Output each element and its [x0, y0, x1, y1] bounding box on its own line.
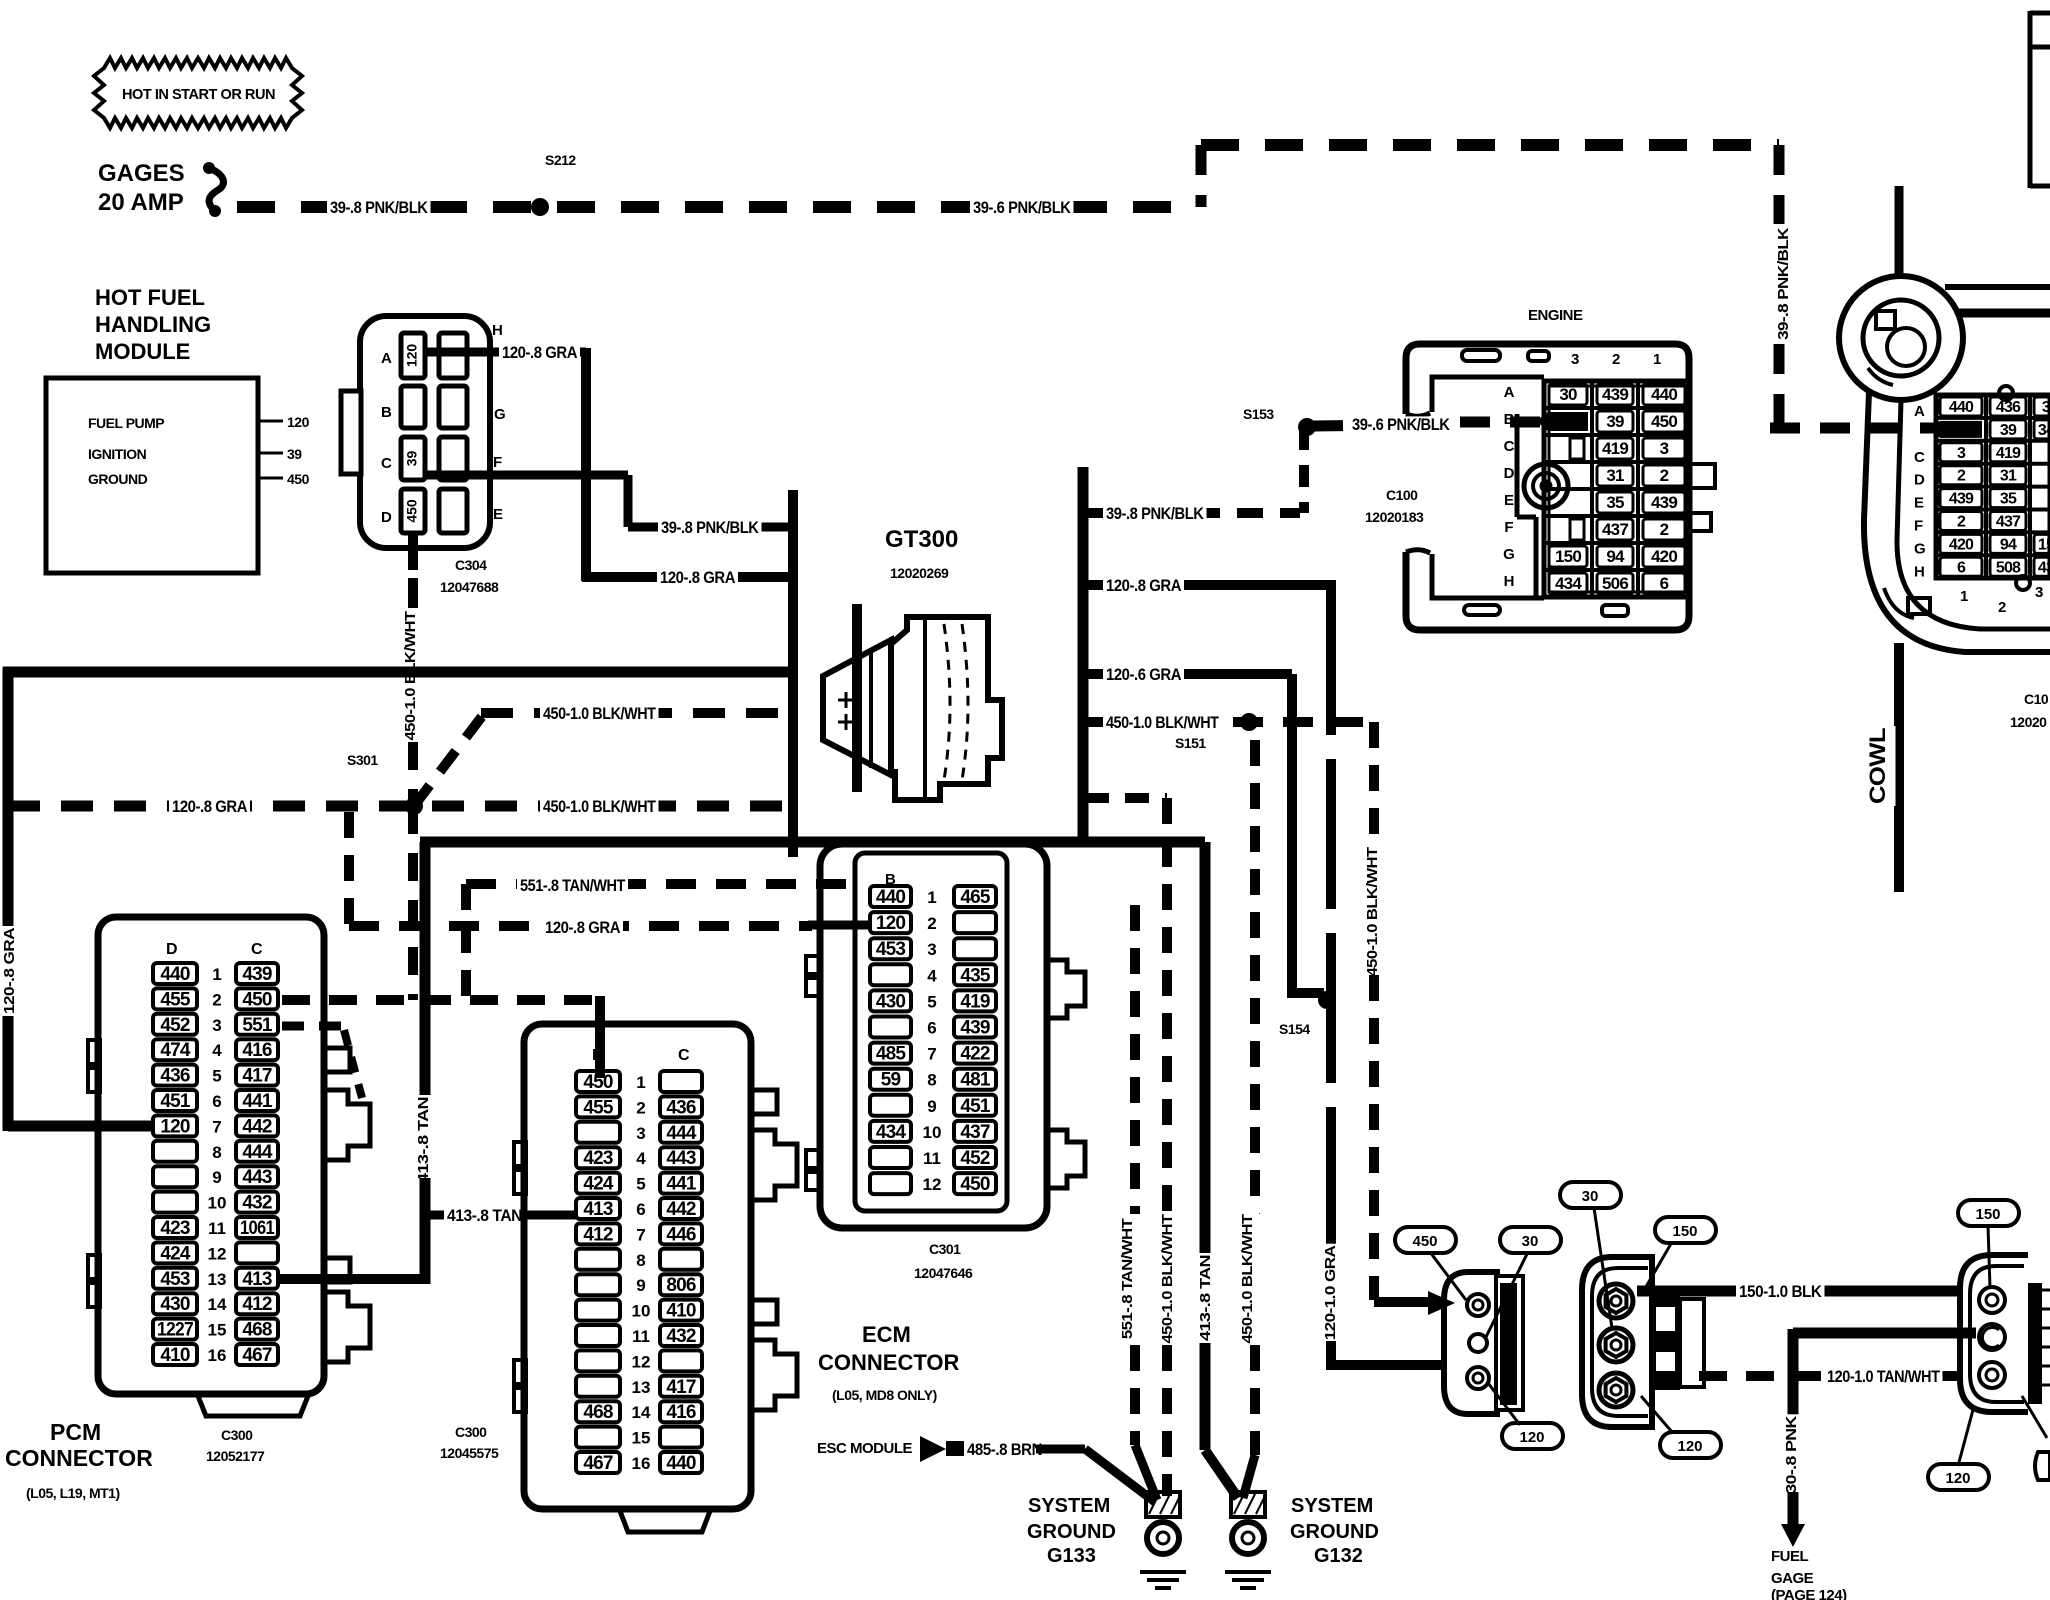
svg-text:G: G [494, 406, 505, 423]
svg-text:450: 450 [242, 989, 272, 1010]
svg-text:3: 3 [212, 1016, 221, 1035]
svg-text:453: 453 [160, 1269, 190, 1290]
svg-text:439: 439 [1949, 491, 1974, 508]
svg-text:4: 4 [927, 966, 937, 985]
svg-text:PCM: PCM [50, 1419, 101, 1445]
svg-text:3: 3 [1957, 445, 1966, 462]
svg-text:453: 453 [876, 939, 906, 960]
svg-text:7: 7 [927, 1045, 936, 1064]
svg-text:C100: C100 [1386, 487, 1418, 503]
svg-text:468: 468 [242, 1320, 272, 1341]
svg-text:94: 94 [1606, 547, 1625, 566]
svg-text:13: 13 [632, 1378, 651, 1397]
svg-text:1: 1 [1960, 588, 1968, 605]
svg-text:437: 437 [960, 1122, 990, 1143]
svg-text:39-.6 PNK/BLK: 39-.6 PNK/BLK [973, 198, 1072, 217]
svg-text:455: 455 [583, 1097, 614, 1118]
svg-text:15: 15 [632, 1429, 651, 1448]
svg-text:419: 419 [960, 991, 990, 1012]
svg-text:(PAGE 124): (PAGE 124) [1771, 1587, 1847, 1600]
svg-text:468: 468 [583, 1402, 613, 1423]
svg-text:G: G [1503, 546, 1515, 563]
svg-text:443: 443 [242, 1167, 272, 1188]
svg-text:12047646: 12047646 [914, 1265, 973, 1281]
svg-text:465: 465 [960, 887, 991, 908]
svg-text:30: 30 [1582, 1188, 1599, 1205]
svg-text:16: 16 [208, 1346, 227, 1365]
svg-text:HANDLING: HANDLING [95, 312, 211, 337]
svg-text:1061: 1061 [240, 1218, 275, 1239]
svg-text:14: 14 [632, 1403, 651, 1422]
svg-text:434: 434 [2038, 559, 2050, 576]
svg-text:D: D [1914, 472, 1925, 489]
svg-text:E: E [1914, 495, 1924, 512]
svg-text:2: 2 [212, 990, 221, 1009]
svg-text:1: 1 [1653, 351, 1661, 368]
svg-text:440: 440 [1651, 385, 1677, 404]
svg-text:413-.8 TAN: 413-.8 TAN [1197, 1255, 1214, 1341]
svg-text:450-1.0 BLK/WHT: 450-1.0 BLK/WHT [543, 797, 656, 816]
svg-text:420: 420 [1949, 536, 1974, 553]
svg-text:506: 506 [1602, 574, 1628, 593]
svg-text:20 AMP: 20 AMP [98, 189, 184, 216]
svg-text:4: 4 [636, 1149, 646, 1168]
svg-text:440: 440 [160, 964, 190, 985]
svg-text:450-1.0 BLK/WHT: 450-1.0 BLK/WHT [1106, 713, 1219, 732]
svg-text:450: 450 [287, 471, 310, 487]
svg-text:CONNECTOR: CONNECTOR [5, 1445, 153, 1471]
svg-text:13: 13 [208, 1270, 227, 1289]
svg-text:120: 120 [1519, 1429, 1544, 1446]
svg-text:440: 440 [876, 887, 906, 908]
svg-text:417: 417 [666, 1377, 696, 1398]
svg-text:6: 6 [1957, 559, 1966, 576]
svg-text:442: 442 [666, 1199, 696, 1220]
svg-text:D: D [166, 941, 177, 958]
svg-text:GROUND: GROUND [1027, 1521, 1116, 1543]
svg-text:485-.8 BRN: 485-.8 BRN [967, 1440, 1042, 1459]
svg-text:F: F [493, 454, 502, 471]
svg-text:551: 551 [242, 1015, 273, 1036]
svg-text:GAGES: GAGES [98, 160, 185, 187]
svg-text:35: 35 [2000, 491, 2017, 508]
svg-text:C: C [1914, 449, 1925, 466]
svg-text:12052177: 12052177 [206, 1448, 265, 1464]
svg-text:H: H [1914, 563, 1924, 580]
svg-text:9: 9 [636, 1276, 645, 1295]
svg-text:424: 424 [583, 1174, 614, 1195]
svg-text:FUEL PUMP: FUEL PUMP [88, 415, 164, 431]
svg-text:436: 436 [666, 1097, 696, 1118]
svg-text:413: 413 [583, 1199, 613, 1220]
svg-text:450: 450 [1412, 1233, 1437, 1250]
svg-text:12047688: 12047688 [440, 579, 499, 595]
svg-text:450-1.0 BLK/WHT: 450-1.0 BLK/WHT [1364, 847, 1381, 976]
svg-text:G132: G132 [1314, 1545, 1363, 1567]
svg-text:12020269: 12020269 [890, 565, 949, 581]
svg-text:S154: S154 [1279, 1021, 1310, 1037]
svg-text:150: 150 [1555, 547, 1581, 566]
svg-text:A: A [1914, 403, 1925, 420]
svg-text:434: 434 [1555, 574, 1582, 593]
svg-text:443: 443 [666, 1148, 696, 1169]
svg-text:439: 439 [242, 964, 272, 985]
svg-text:2: 2 [1660, 466, 1669, 485]
svg-text:D: D [381, 509, 392, 526]
svg-text:S301: S301 [347, 752, 378, 768]
svg-text:7: 7 [636, 1225, 645, 1244]
svg-text:S212: S212 [545, 152, 576, 168]
svg-text:416: 416 [666, 1402, 696, 1423]
svg-text:9: 9 [212, 1168, 221, 1187]
svg-text:2: 2 [636, 1098, 645, 1117]
svg-text:11: 11 [923, 1149, 941, 1168]
svg-text:440: 440 [1949, 399, 1974, 416]
svg-text:410: 410 [160, 1345, 190, 1366]
svg-text:120-1.0 TAN/WHT: 120-1.0 TAN/WHT [1827, 1367, 1940, 1386]
svg-text:424: 424 [160, 1243, 191, 1264]
svg-text:59: 59 [881, 1070, 901, 1091]
svg-text:31: 31 [1606, 466, 1624, 485]
svg-text:120-1.0 GRA: 120-1.0 GRA [1322, 1245, 1339, 1340]
svg-text:6: 6 [927, 1019, 936, 1038]
svg-text:12045575: 12045575 [440, 1445, 499, 1461]
svg-text:120: 120 [404, 344, 420, 368]
svg-text:C: C [381, 455, 392, 472]
svg-text:12: 12 [632, 1352, 651, 1371]
svg-text:12: 12 [208, 1244, 227, 1263]
svg-text:420: 420 [1651, 547, 1677, 566]
svg-text:10: 10 [923, 1123, 942, 1142]
svg-text:35: 35 [1606, 493, 1624, 512]
svg-text:423: 423 [583, 1148, 613, 1169]
svg-text:150: 150 [2038, 536, 2050, 553]
svg-text:C: C [678, 1047, 690, 1064]
svg-text:4: 4 [212, 1041, 222, 1060]
svg-text:SYSTEM: SYSTEM [1291, 1495, 1373, 1517]
svg-text:2: 2 [1612, 351, 1620, 368]
svg-text:435: 435 [960, 965, 991, 986]
svg-text:C300: C300 [221, 1427, 253, 1443]
svg-text:S153: S153 [1243, 406, 1274, 422]
svg-text:430: 430 [160, 1294, 190, 1315]
svg-text:120-.6 GRA: 120-.6 GRA [1106, 665, 1181, 684]
svg-text:8: 8 [212, 1143, 221, 1162]
svg-text:419: 419 [1996, 445, 2021, 462]
svg-text:439: 439 [1602, 385, 1628, 404]
svg-text:G133: G133 [1047, 1545, 1096, 1567]
svg-text:413-.8 TAN: 413-.8 TAN [415, 1097, 432, 1183]
svg-text:436: 436 [160, 1066, 190, 1087]
svg-text:GROUND: GROUND [88, 471, 148, 487]
svg-text:451: 451 [160, 1091, 191, 1112]
svg-text:C10: C10 [2024, 691, 2049, 707]
svg-text:474: 474 [160, 1040, 191, 1061]
svg-text:A: A [1504, 384, 1515, 401]
svg-text:452: 452 [960, 1148, 990, 1169]
svg-text:432: 432 [666, 1326, 696, 1347]
svg-text:12: 12 [923, 1175, 942, 1194]
svg-text:(L05, L19, MT1): (L05, L19, MT1) [26, 1485, 120, 1501]
svg-text:120: 120 [160, 1116, 190, 1137]
svg-text:450-1.0 BLK/WHT: 450-1.0 BLK/WHT [1159, 1214, 1176, 1343]
svg-text:450-1.0 BLK/WHT: 450-1.0 BLK/WHT [1239, 1214, 1256, 1343]
svg-text:6: 6 [1660, 574, 1669, 593]
svg-text:10: 10 [632, 1302, 651, 1321]
svg-text:437: 437 [1602, 520, 1628, 539]
svg-text:IGNITION: IGNITION [88, 446, 147, 462]
svg-text:C301: C301 [929, 1241, 961, 1257]
svg-text:430: 430 [876, 991, 906, 1012]
svg-text:39: 39 [287, 446, 302, 462]
svg-text:2: 2 [1998, 599, 2006, 616]
svg-text:39-.8 PNK/BLK: 39-.8 PNK/BLK [661, 518, 760, 537]
svg-text:120: 120 [287, 414, 310, 430]
svg-text:39-.8 PNK/BLK: 39-.8 PNK/BLK [1106, 504, 1205, 523]
svg-text:452: 452 [160, 1015, 190, 1036]
svg-text:2: 2 [1957, 468, 1966, 485]
svg-text:551-.8 TAN/WHT: 551-.8 TAN/WHT [1119, 1218, 1136, 1339]
svg-text:3: 3 [927, 940, 936, 959]
svg-text:GAGE: GAGE [1771, 1570, 1814, 1587]
svg-text:150-1.0 BLK: 150-1.0 BLK [1739, 1282, 1823, 1301]
svg-text:GROUND: GROUND [1290, 1521, 1379, 1543]
svg-text:ECM: ECM [862, 1322, 911, 1347]
svg-text:3: 3 [636, 1124, 645, 1143]
svg-text:GT300: GT300 [885, 526, 958, 553]
svg-text:6: 6 [636, 1200, 645, 1219]
svg-text:2: 2 [927, 914, 936, 933]
svg-text:5: 5 [212, 1067, 221, 1086]
svg-text:440: 440 [666, 1453, 696, 1474]
svg-text:F: F [1504, 519, 1513, 536]
svg-text:16: 16 [632, 1454, 651, 1473]
svg-text:150: 150 [1672, 1223, 1697, 1240]
svg-text:455: 455 [160, 989, 191, 1010]
svg-text:120-.8 GRA: 120-.8 GRA [502, 343, 577, 362]
svg-text:SYSTEM: SYSTEM [1028, 1495, 1110, 1517]
svg-text:11: 11 [208, 1219, 226, 1238]
svg-text:432: 432 [242, 1193, 272, 1214]
svg-text:340: 340 [2038, 422, 2050, 439]
svg-text:416: 416 [242, 1040, 272, 1061]
svg-text:30: 30 [1559, 385, 1577, 404]
svg-text:439: 439 [960, 1018, 990, 1039]
svg-text:HOT FUEL: HOT FUEL [95, 285, 205, 310]
svg-text:2: 2 [1957, 514, 1966, 531]
svg-text:30: 30 [1522, 1233, 1539, 1250]
svg-text:8: 8 [636, 1251, 645, 1270]
svg-text:2: 2 [1660, 520, 1669, 539]
svg-text:439: 439 [1651, 493, 1677, 512]
svg-text:12020183: 12020183 [1365, 509, 1424, 525]
svg-text:120: 120 [1945, 1470, 1970, 1487]
svg-text:508: 508 [1996, 559, 2021, 576]
svg-text:COWL: COWL [1865, 728, 1890, 804]
svg-text:C300: C300 [455, 1424, 487, 1440]
svg-text:806: 806 [666, 1275, 696, 1296]
svg-text:39-.8 PNK/BLK: 39-.8 PNK/BLK [1775, 227, 1792, 340]
svg-text:551-.8 TAN/WHT: 551-.8 TAN/WHT [520, 876, 626, 895]
svg-text:481: 481 [960, 1070, 991, 1091]
svg-text:(L05, MD8 ONLY): (L05, MD8 ONLY) [832, 1387, 937, 1403]
svg-text:30: 30 [2042, 399, 2050, 416]
svg-text:14: 14 [208, 1295, 227, 1314]
svg-text:D: D [592, 1047, 603, 1064]
svg-text:441: 441 [242, 1091, 273, 1112]
svg-text:15: 15 [208, 1321, 227, 1340]
svg-text:120: 120 [1677, 1438, 1702, 1455]
svg-text:C: C [251, 941, 263, 958]
svg-text:423: 423 [160, 1218, 190, 1239]
svg-text:467: 467 [242, 1345, 272, 1366]
svg-text:12020: 12020 [2010, 714, 2047, 730]
svg-text:1: 1 [927, 888, 936, 907]
svg-text:CONNECTOR: CONNECTOR [818, 1350, 959, 1375]
svg-text:446: 446 [666, 1224, 696, 1245]
svg-text:7: 7 [212, 1117, 221, 1136]
svg-text:434: 434 [876, 1122, 907, 1143]
svg-text:3: 3 [1571, 351, 1579, 368]
svg-text:ENGINE: ENGINE [1528, 307, 1583, 324]
svg-text:450: 450 [960, 1174, 990, 1195]
svg-text:H: H [1504, 573, 1515, 590]
svg-text:120-.8 GRA: 120-.8 GRA [1106, 576, 1181, 595]
svg-text:HOT IN START OR RUN: HOT IN START OR RUN [122, 86, 275, 103]
svg-text:413-.8 TAN: 413-.8 TAN [447, 1206, 522, 1225]
svg-text:39: 39 [1606, 412, 1624, 431]
svg-text:31: 31 [2000, 468, 2017, 485]
svg-text:H: H [492, 322, 502, 339]
svg-text:120-.8 GRA: 120-.8 GRA [545, 918, 620, 937]
svg-text:442: 442 [242, 1116, 272, 1137]
svg-text:MODULE: MODULE [95, 339, 190, 364]
svg-text:450: 450 [404, 499, 420, 523]
svg-text:150: 150 [1975, 1206, 2000, 1223]
svg-text:413: 413 [242, 1269, 272, 1290]
svg-text:412: 412 [242, 1294, 272, 1315]
svg-text:94: 94 [2000, 536, 2017, 553]
svg-text:11: 11 [632, 1327, 650, 1346]
svg-text:6: 6 [212, 1092, 221, 1111]
svg-text:444: 444 [242, 1142, 273, 1163]
svg-text:120: 120 [876, 913, 906, 934]
svg-text:450: 450 [1651, 412, 1677, 431]
svg-text:G: G [1914, 540, 1925, 557]
svg-text:467: 467 [583, 1453, 613, 1474]
svg-text:10: 10 [208, 1194, 227, 1213]
svg-text:1: 1 [212, 965, 221, 984]
svg-text:39-.8 PNK/BLK: 39-.8 PNK/BLK [330, 198, 429, 217]
svg-text:S151: S151 [1175, 735, 1206, 751]
svg-text:450: 450 [583, 1072, 613, 1093]
svg-text:451: 451 [960, 1096, 991, 1117]
svg-text:C304: C304 [455, 557, 487, 573]
svg-text:FUEL: FUEL [1771, 1548, 1809, 1565]
svg-text:485: 485 [876, 1044, 907, 1065]
svg-text:5: 5 [636, 1175, 645, 1194]
svg-text:8: 8 [927, 1071, 936, 1090]
svg-text:417: 417 [242, 1066, 272, 1087]
svg-text:120-.8 GRA: 120-.8 GRA [660, 568, 735, 587]
svg-text:C: C [1504, 438, 1515, 455]
svg-text:444: 444 [666, 1123, 697, 1144]
svg-text:A: A [381, 350, 392, 367]
svg-text:39: 39 [404, 451, 420, 467]
svg-text:ESC MODULE: ESC MODULE [817, 1440, 913, 1457]
svg-text:3: 3 [2035, 584, 2043, 601]
svg-text:F: F [1914, 518, 1923, 535]
svg-text:39-.6 PNK/BLK: 39-.6 PNK/BLK [1352, 415, 1451, 434]
svg-text:410: 410 [666, 1301, 696, 1322]
svg-text:E: E [493, 506, 503, 523]
svg-text:B: B [381, 404, 392, 421]
svg-text:419: 419 [1602, 439, 1628, 458]
svg-text:1: 1 [636, 1073, 645, 1092]
svg-text:450-1.0 BLK/WHT: 450-1.0 BLK/WHT [543, 704, 656, 723]
svg-text:441: 441 [666, 1174, 697, 1195]
svg-text:3: 3 [1660, 439, 1669, 458]
svg-text:30-.8 PNK: 30-.8 PNK [1783, 1416, 1800, 1494]
svg-text:E: E [1504, 492, 1514, 509]
svg-text:1227: 1227 [157, 1320, 193, 1341]
svg-text:120-.8 GRA: 120-.8 GRA [172, 797, 247, 816]
svg-text:9: 9 [927, 1097, 936, 1116]
svg-text:5: 5 [927, 992, 936, 1011]
svg-text:422: 422 [960, 1044, 990, 1065]
svg-text:D: D [1504, 465, 1515, 482]
svg-text:39: 39 [2000, 422, 2017, 439]
svg-text:412: 412 [583, 1224, 613, 1245]
svg-text:437: 437 [1996, 514, 2021, 531]
svg-text:120-.8 GRA: 120-.8 GRA [1, 927, 18, 1014]
